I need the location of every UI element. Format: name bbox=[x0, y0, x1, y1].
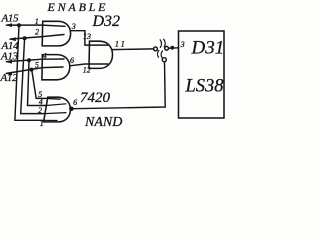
junction A13 bbox=[27, 58, 31, 62]
svg-text:A15: A15 bbox=[1, 12, 20, 24]
connector contact right bbox=[165, 46, 169, 50]
wire A13 drop bbox=[28, 60, 47, 105]
svg-text:D32: D32 bbox=[92, 13, 121, 30]
junction A12 bbox=[30, 68, 34, 72]
AND gate D32.2 bbox=[42, 55, 70, 80]
AND gate D32.1 bbox=[42, 21, 70, 46]
wire connector to D31 bbox=[169, 47, 179, 49]
svg-text:2: 2 bbox=[38, 106, 42, 115]
svg-text:1: 1 bbox=[35, 17, 39, 26]
IC box D31 bbox=[179, 31, 225, 118]
wire A12 drop bbox=[32, 70, 60, 100]
svg-text:6: 6 bbox=[73, 98, 77, 107]
junction at D31 pin3 bbox=[170, 46, 174, 50]
connector arc c bbox=[157, 50, 158, 57]
wire A12 bbox=[7, 67, 64, 73]
connector contact left bbox=[154, 47, 158, 51]
wire NAND out bbox=[74, 62, 166, 109]
connector contact lower bbox=[162, 58, 166, 62]
svg-text:ENABLE: ENABLE bbox=[47, 0, 109, 14]
svg-text:5: 5 bbox=[35, 60, 39, 69]
svg-text:3: 3 bbox=[71, 22, 76, 31]
wire A15 drop bbox=[15, 25, 44, 120]
wire A14 drop bbox=[21, 38, 45, 113]
connector arc d bbox=[161, 51, 162, 58]
svg-text:2: 2 bbox=[35, 27, 39, 36]
AND gate D32.3 bbox=[89, 41, 113, 68]
svg-text:D31: D31 bbox=[191, 38, 225, 59]
svg-text:3: 3 bbox=[180, 40, 185, 49]
wire gate2 out to gate3 in12 bbox=[70, 64, 108, 66]
svg-text:11: 11 bbox=[115, 39, 127, 49]
wire gate1 out to gate3 in13 bbox=[70, 31, 108, 45]
NAND output bubble bbox=[69, 107, 74, 112]
svg-text:6: 6 bbox=[70, 56, 74, 65]
wire A14 bbox=[10, 35, 64, 40]
arrow A13 bbox=[5, 60, 12, 64]
svg-text:1: 1 bbox=[40, 119, 44, 127]
svg-text:LS38: LS38 bbox=[185, 77, 225, 97]
arrow A14 bbox=[9, 37, 16, 41]
svg-text:NAND: NAND bbox=[84, 115, 122, 127]
wire gate3 out bbox=[112, 48, 154, 51]
arrow A15 bbox=[5, 23, 12, 27]
svg-text:4: 4 bbox=[43, 51, 47, 60]
junction A14 bbox=[23, 36, 27, 40]
svg-text:7420: 7420 bbox=[80, 90, 111, 106]
junction A15 bbox=[17, 23, 21, 27]
NAND input pin lines inside bbox=[43, 104, 66, 121]
wire A13 bbox=[7, 59, 65, 62]
connector arc b bbox=[164, 39, 166, 47]
connector arc a bbox=[160, 40, 161, 48]
NAND gate 7420 bbox=[44, 97, 71, 122]
arrow A12 bbox=[5, 72, 12, 76]
wire A15 bbox=[7, 25, 66, 26]
svg-text:13: 13 bbox=[83, 32, 91, 41]
